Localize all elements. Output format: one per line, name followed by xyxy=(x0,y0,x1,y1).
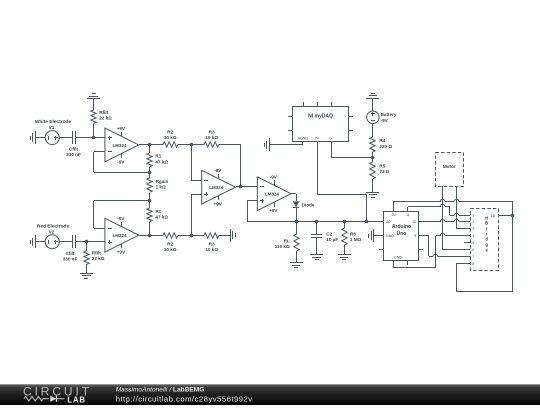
resistor R1 (stage 1, 47 k&#937;) xyxy=(147,145,169,172)
op-amp U3 LM324 (difference) xyxy=(202,168,236,206)
svg-text:-9V: -9V xyxy=(214,168,222,173)
diode D1 xyxy=(293,201,315,207)
svg-text:LM324: LM324 xyxy=(112,233,127,238)
resistor R6 (1 M&#937;) xyxy=(342,221,362,255)
svg-text:1 MΩ: 1 MΩ xyxy=(350,237,362,242)
svg-text:g: g xyxy=(485,242,488,247)
resistor Rfilt (stage 2, 22 k&#937;) xyxy=(84,242,105,273)
myDAQ left pin stubs xyxy=(288,117,292,131)
svg-text:10 kΩ: 10 kΩ xyxy=(205,247,218,252)
svg-text:1: 1 xyxy=(472,214,474,218)
H-bridge pin 16 stub xyxy=(498,215,513,217)
wire (5V riser) xyxy=(393,201,395,212)
footer bar with CircuitLab logo and attribution xyxy=(0,384,540,405)
svg-text:10: 10 xyxy=(412,220,416,224)
svg-text:10 kΩ: 10 kΩ xyxy=(164,135,177,140)
svg-text:LAB: LAB xyxy=(67,396,85,405)
Arduino pin label GND-left xyxy=(386,234,394,238)
node (diode/RL) xyxy=(295,220,299,224)
ground (right of bottom R3) xyxy=(231,229,236,242)
svg-text:C2: C2 xyxy=(326,231,332,236)
svg-text:-9V: -9V xyxy=(117,159,125,164)
svg-text:LM324: LM324 xyxy=(112,143,127,148)
svg-text:Cfilt: Cfilt xyxy=(66,251,75,256)
svg-text:White Electrode: White Electrode xyxy=(35,119,72,125)
wire xyxy=(372,98,374,111)
ground (below Rfilt stage2) xyxy=(80,274,93,279)
wire (op1 output) xyxy=(139,144,163,146)
ground (below R5) xyxy=(366,193,379,198)
resistor R3 (top feedback, 10 k&#937;) xyxy=(204,130,241,148)
wire xyxy=(76,241,105,243)
resistor R1 (stage 2, 47 k&#937;) xyxy=(147,201,169,235)
svg-text:R2: R2 xyxy=(167,241,173,246)
svg-text:7: 7 xyxy=(472,255,474,259)
svg-text:B: B xyxy=(485,221,488,226)
resistor R5 (73 &#937;) xyxy=(370,158,390,192)
svg-text:H: H xyxy=(485,215,488,220)
op-amp U2 LM324 (stage 2) xyxy=(105,216,139,254)
node (op1 out) xyxy=(148,143,152,147)
wire (op2 feedback) xyxy=(94,201,151,229)
resistor R4 (220 &#937;) xyxy=(370,137,393,158)
svg-text:9: 9 xyxy=(414,234,416,238)
svg-text:Arduino: Arduino xyxy=(392,224,411,230)
svg-text:+9V: +9V xyxy=(117,126,126,131)
H Bridge label xyxy=(485,215,488,252)
svg-text:2: 2 xyxy=(472,220,474,224)
myDAQ pin label 0+ xyxy=(315,136,319,140)
battery (-9V) xyxy=(367,111,397,123)
myDAQ right pin stubs xyxy=(348,117,353,131)
svg-text:+9V: +9V xyxy=(117,249,126,254)
node J2 xyxy=(148,199,152,203)
svg-text:+9V: +9V xyxy=(214,201,223,206)
Arduino pin label GND-bottom xyxy=(394,255,402,259)
op-amp U1 LM324 (stage 1) xyxy=(105,126,139,164)
svg-text:5: 5 xyxy=(472,241,474,245)
svg-text:1 kΩ: 1 kΩ xyxy=(156,185,166,190)
ground (left of V1) xyxy=(31,131,36,144)
H-bridge left pin stubs xyxy=(464,216,470,264)
wire (to op3 +input) xyxy=(191,194,202,235)
svg-text:Cfilt: Cfilt xyxy=(69,147,78,152)
wire (R3 to op3 output) xyxy=(240,145,242,187)
ground (below RL) xyxy=(290,263,303,268)
svg-text:Diode: Diode xyxy=(302,202,315,207)
svg-text:6: 6 xyxy=(472,248,474,252)
svg-text:330 nF: 330 nF xyxy=(63,256,78,261)
svg-text:R5: R5 xyxy=(379,163,385,168)
svg-text:Rgain: Rgain xyxy=(156,179,169,184)
capacitor Cfilt (stage 1) xyxy=(66,131,81,157)
wire (op1 feedback) xyxy=(94,152,151,173)
svg-text:R1: R1 xyxy=(155,209,161,214)
Arduino unconnected stubs xyxy=(379,250,423,266)
svg-text:47 kΩ: 47 kΩ xyxy=(155,214,168,219)
svg-text:Rfilt: Rfilt xyxy=(92,251,101,256)
svg-text:Uno: Uno xyxy=(397,231,407,237)
wire xyxy=(76,137,105,139)
H Bridge box (dashed) xyxy=(471,209,499,271)
svg-text:11: 11 xyxy=(406,213,410,217)
svg-text:R1: R1 xyxy=(155,154,161,159)
svg-text:R4: R4 xyxy=(379,138,385,143)
Arduino pin label 9 xyxy=(414,234,416,238)
node (op3 out) xyxy=(239,185,243,189)
NI myDAQ box xyxy=(293,107,349,142)
node (stage2 +input) xyxy=(85,240,89,244)
ground (above Rfilt) xyxy=(87,94,100,99)
capacitor C2 (10 &#181;F) xyxy=(311,221,338,255)
wire (motor left lead) xyxy=(442,186,444,250)
wire (0- to R4/R5) xyxy=(331,142,373,158)
wire (GND to box) xyxy=(374,235,384,237)
voltage source V1 (White Electrode) xyxy=(35,119,72,144)
svg-text:10 kΩ: 10 kΩ xyxy=(205,135,218,140)
ground (below R6) xyxy=(338,255,351,260)
myDAQ top pin stubs xyxy=(304,102,332,106)
svg-text:GND: GND xyxy=(394,255,402,259)
svg-text:22 kΩ: 22 kΩ xyxy=(99,116,112,121)
svg-text:V2: V2 xyxy=(49,229,55,235)
wire (5V line) xyxy=(394,199,513,215)
node (op2 out) xyxy=(148,234,152,238)
wire (AGND to ground) xyxy=(269,142,303,145)
Arduino pin label 10 xyxy=(412,220,416,224)
capacitor Cfilt (stage 2) xyxy=(63,235,78,261)
wire xyxy=(35,137,45,139)
svg-text:330 nF: 330 nF xyxy=(66,152,81,157)
svg-text:NI myDAQ: NI myDAQ xyxy=(308,113,333,119)
ground (above battery) xyxy=(366,94,379,99)
wire (11 to pin1) xyxy=(408,204,464,215)
node (R4/R5) xyxy=(371,156,375,160)
svg-text:-9V: -9V xyxy=(270,175,278,180)
svg-text:110 kΩ: 110 kΩ xyxy=(275,244,290,249)
resistor R2 (bottom, 10 k&#937;) xyxy=(163,233,204,252)
svg-text:AGND: AGND xyxy=(298,136,309,140)
svg-text:R2: R2 xyxy=(167,130,173,135)
svg-text:LM324: LM324 xyxy=(265,192,280,197)
node (R6) xyxy=(343,220,347,224)
svg-text:d: d xyxy=(485,237,488,242)
wire (0+ to bus) xyxy=(317,142,367,221)
svg-text:4: 4 xyxy=(472,234,474,238)
wire (11 riser) xyxy=(407,207,409,212)
ground (left of V2) xyxy=(31,235,36,248)
wire (motor right to pin3) xyxy=(456,228,464,230)
wire xyxy=(59,241,72,243)
svg-text:Battery: Battery xyxy=(381,112,397,117)
svg-text:0+: 0+ xyxy=(315,136,319,140)
svg-text:8: 8 xyxy=(472,262,474,266)
myDAQ pin label AGND xyxy=(298,136,309,140)
svg-text:+9V: +9V xyxy=(269,208,278,213)
svg-text:RL: RL xyxy=(284,238,290,243)
resistor Rgain (1 k&#937;) xyxy=(147,172,169,201)
node (R2/R3 top) xyxy=(190,143,194,147)
svg-text:5V: 5V xyxy=(392,213,397,217)
H-bridge pin numbers xyxy=(472,214,474,266)
resistor R3 (bottom, 10 k&#937;) xyxy=(204,233,230,252)
myDAQ pin label 0- xyxy=(329,136,333,140)
wire xyxy=(372,123,374,137)
wire (10 to pin2) xyxy=(418,219,464,221)
Arduino pin label 5V xyxy=(392,213,397,217)
wire (right vertical to pin8 loop) xyxy=(456,215,513,292)
wire (op3 output) xyxy=(236,186,257,188)
node (R2/R3 bottom) xyxy=(190,234,194,238)
svg-text:22 kΩ: 22 kΩ xyxy=(92,256,105,261)
wire (motor left to pin6) xyxy=(443,249,464,251)
wire xyxy=(59,137,72,139)
ground (below C2) xyxy=(310,255,323,260)
svg-text:V1: V1 xyxy=(49,125,55,131)
svg-text:Motor: Motor xyxy=(443,164,456,169)
resistor R2 (top, 10 k&#937;) xyxy=(163,130,204,148)
svg-text:R3: R3 xyxy=(209,130,215,135)
Arduino Uno box xyxy=(384,212,419,261)
wire (GND riser to pin4) xyxy=(394,233,465,268)
svg-text:R6: R6 xyxy=(350,231,356,236)
wire xyxy=(35,241,45,243)
wire (motor right lead) xyxy=(456,186,458,228)
svg-text:16: 16 xyxy=(491,214,495,218)
wire (to op3 -input) xyxy=(191,145,202,181)
node (pin16/5V) xyxy=(511,214,515,218)
svg-text:Red Electrode: Red Electrode xyxy=(37,223,70,229)
op-amp U4 LM324 (rectifier) xyxy=(257,175,291,213)
node (stage1 +input) xyxy=(92,136,96,140)
svg-text:Rfilt: Rfilt xyxy=(99,110,108,115)
Arduino pin label A0 xyxy=(386,220,390,224)
node J1 xyxy=(148,171,152,175)
Motor box (dashed) xyxy=(436,153,464,187)
svg-text:-9V: -9V xyxy=(381,118,389,123)
svg-text:A0: A0 xyxy=(386,220,390,224)
resistor RL (110 k&#937;) xyxy=(275,221,299,263)
wire (diode to bus) xyxy=(296,208,298,221)
svg-text:73 Ω: 73 Ω xyxy=(379,169,389,174)
svg-text:-9V: -9V xyxy=(117,216,125,221)
node (0+ on bus) xyxy=(365,220,369,224)
wire (op4 +fb) xyxy=(247,201,257,222)
svg-text:LM324: LM324 xyxy=(209,185,224,190)
wire (9 to pin7) xyxy=(418,236,464,257)
ground (Arduino GND) xyxy=(369,229,374,242)
svg-text:220 Ω: 220 Ω xyxy=(379,144,392,149)
svg-text:10 kΩ: 10 kΩ xyxy=(164,247,177,252)
svg-text:i: i xyxy=(486,231,487,236)
H-bridge pin 16 label xyxy=(491,214,495,218)
wire (op2 output) xyxy=(139,235,163,237)
svg-text:GND: GND xyxy=(386,234,394,238)
svg-text:10 µF: 10 µF xyxy=(326,237,338,242)
ground (AGND) xyxy=(265,138,270,151)
svg-text:3: 3 xyxy=(472,227,474,231)
node (C2) xyxy=(315,220,319,224)
wire (signal bus) xyxy=(247,221,384,223)
svg-text:47 kΩ: 47 kΩ xyxy=(155,159,168,164)
voltage source V2 (Red Electrode) xyxy=(37,223,70,248)
Arduino pin label 11 xyxy=(406,213,410,217)
wire (op4 output down) xyxy=(291,194,297,202)
svg-text:R3: R3 xyxy=(209,241,215,246)
svg-text:http://circuitlab.com/c28yv556: http://circuitlab.com/c28yv556t992v xyxy=(116,395,253,404)
svg-text:MassimoAntonelli / LabBEMG: MassimoAntonelli / LabBEMG xyxy=(116,387,205,394)
resistor Rfilt (stage 1, 22 k&#937;) xyxy=(91,98,112,138)
